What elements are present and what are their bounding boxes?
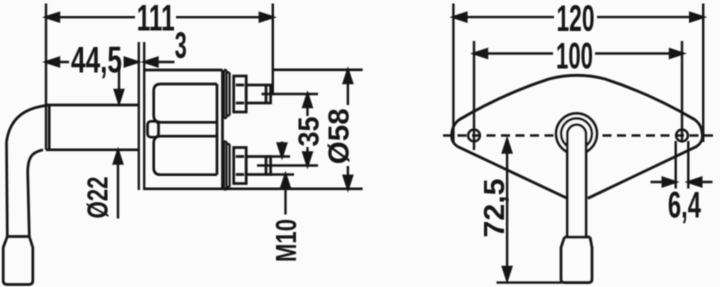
mounting plate (edge view, 3mm) — [139, 42, 144, 190]
dimension O58 — [344, 70, 352, 189]
terminal bottom: insulator plate — [224, 142, 227, 190]
housing cap lower half — [154, 136, 217, 175]
terminal top: center extension line — [262, 93, 319, 95]
svg-text:100: 100 — [556, 36, 593, 77]
lever arm (side view) — [7, 106, 47, 237]
terminal bottom: hex nut — [234, 148, 247, 184]
dimension 111 — [46, 13, 273, 21]
mounting plate outline (front view) — [452, 75, 703, 198]
right mounting hole — [676, 130, 688, 142]
terminal top: washer — [227, 73, 230, 116]
lever shaft front view (U bend + tube) — [567, 125, 586, 237]
M10 extension lines — [267, 157, 294, 175]
dimension 3 — [145, 58, 175, 66]
dimension 120 extension lines — [453, 4, 703, 143]
O58 top extension line — [274, 68, 363, 71]
terminal top: stud M10 — [246, 85, 270, 103]
svg-text:35: 35 — [294, 117, 326, 147]
svg-text:44,5: 44,5 — [71, 40, 122, 81]
dimension 72,5 — [503, 140, 511, 281]
dimension 6,4 extension lines — [676, 141, 689, 189]
terminal bottom: washer — [227, 144, 230, 187]
knob bottom extension line — [497, 281, 562, 283]
terminal bottom: center extension line — [257, 164, 318, 166]
housing cap right edge — [216, 84, 219, 175]
dimension 44,5 — [46, 58, 138, 66]
svg-text:3: 3 — [175, 25, 187, 66]
svg-text:M10: M10 — [271, 219, 303, 262]
terminal top: hex nut — [234, 76, 247, 112]
left mounting hole — [468, 130, 480, 142]
dimension 120 — [453, 13, 703, 21]
terminal bottom: stud M10 — [246, 157, 270, 175]
dimension 111 extension lines — [46, 4, 273, 150]
shaft cylinder O22 (side view) — [46, 105, 139, 150]
dashed centerline — [443, 134, 713, 137]
svg-text:Ø22: Ø22 — [83, 177, 115, 219]
dimension 100 extension lines — [474, 41, 682, 150]
svg-text:6,4: 6,4 — [668, 184, 701, 225]
dimension M10 leaders — [278, 142, 290, 215]
housing groove tab — [148, 121, 159, 137]
center boss middle circle — [561, 118, 592, 149]
lever knob (side view) — [3, 237, 33, 285]
svg-text:72,5: 72,5 — [479, 179, 511, 238]
dimension 35 — [303, 94, 311, 166]
dimension 6,4 — [651, 178, 713, 186]
center boss outer circle — [556, 113, 597, 154]
svg-text:111: 111 — [137, 0, 175, 38]
svg-text:120: 120 — [557, 0, 595, 39]
terminal top: insulator plate — [224, 70, 227, 118]
housing body O58 — [144, 70, 363, 189]
knob front view — [561, 237, 592, 283]
svg-text:Ø58: Ø58 — [324, 108, 356, 164]
housing cap upper half — [154, 84, 217, 122]
dimension 100 — [474, 49, 683, 57]
dimension O22 leaders — [114, 67, 123, 219]
